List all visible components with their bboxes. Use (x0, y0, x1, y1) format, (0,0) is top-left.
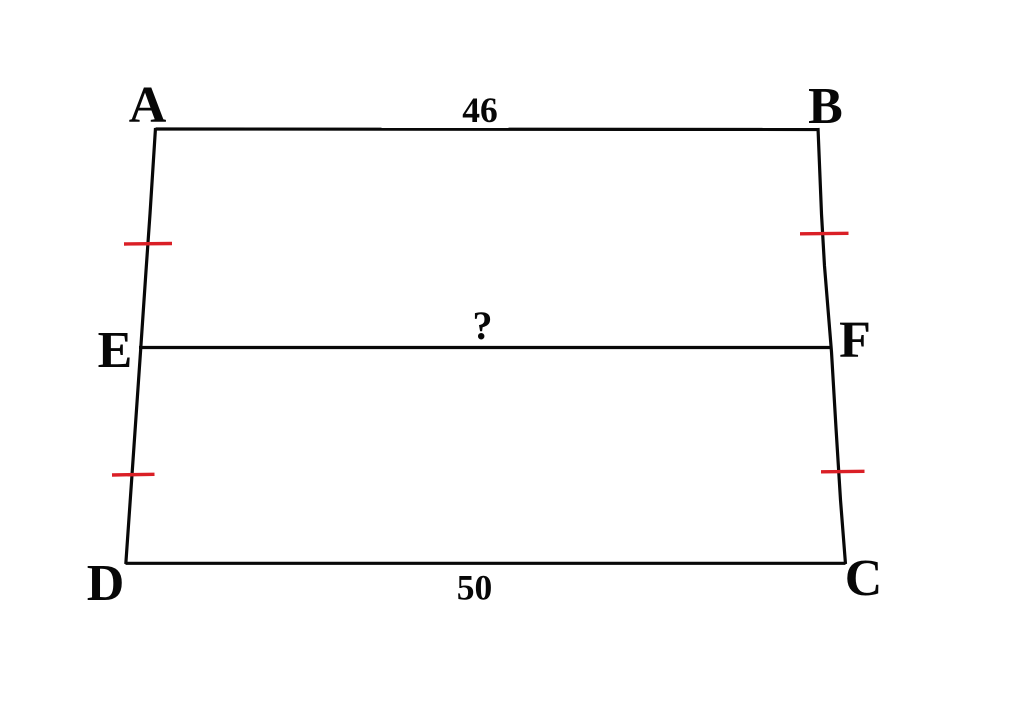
svg-text:B: B (808, 78, 843, 135)
tick mark on BF (800, 232, 849, 236)
tick mark on ED (112, 473, 155, 477)
side DC (bottom) (126, 562, 846, 565)
tick mark on AE (124, 242, 172, 246)
svg-text:A: A (129, 77, 167, 134)
midsegment EF (139, 346, 833, 349)
side AD (left) (126, 128, 156, 564)
side BC (right) (818, 128, 846, 564)
svg-text:?: ? (473, 303, 493, 348)
svg-text:50: 50 (457, 568, 493, 608)
tick mark on FC (821, 470, 865, 474)
svg-text:E: E (98, 322, 133, 379)
svg-text:C: C (845, 550, 883, 607)
svg-text:46: 46 (462, 90, 498, 130)
side AB (top) (156, 127, 819, 131)
svg-text:D: D (87, 555, 125, 612)
svg-text:F: F (839, 312, 871, 369)
